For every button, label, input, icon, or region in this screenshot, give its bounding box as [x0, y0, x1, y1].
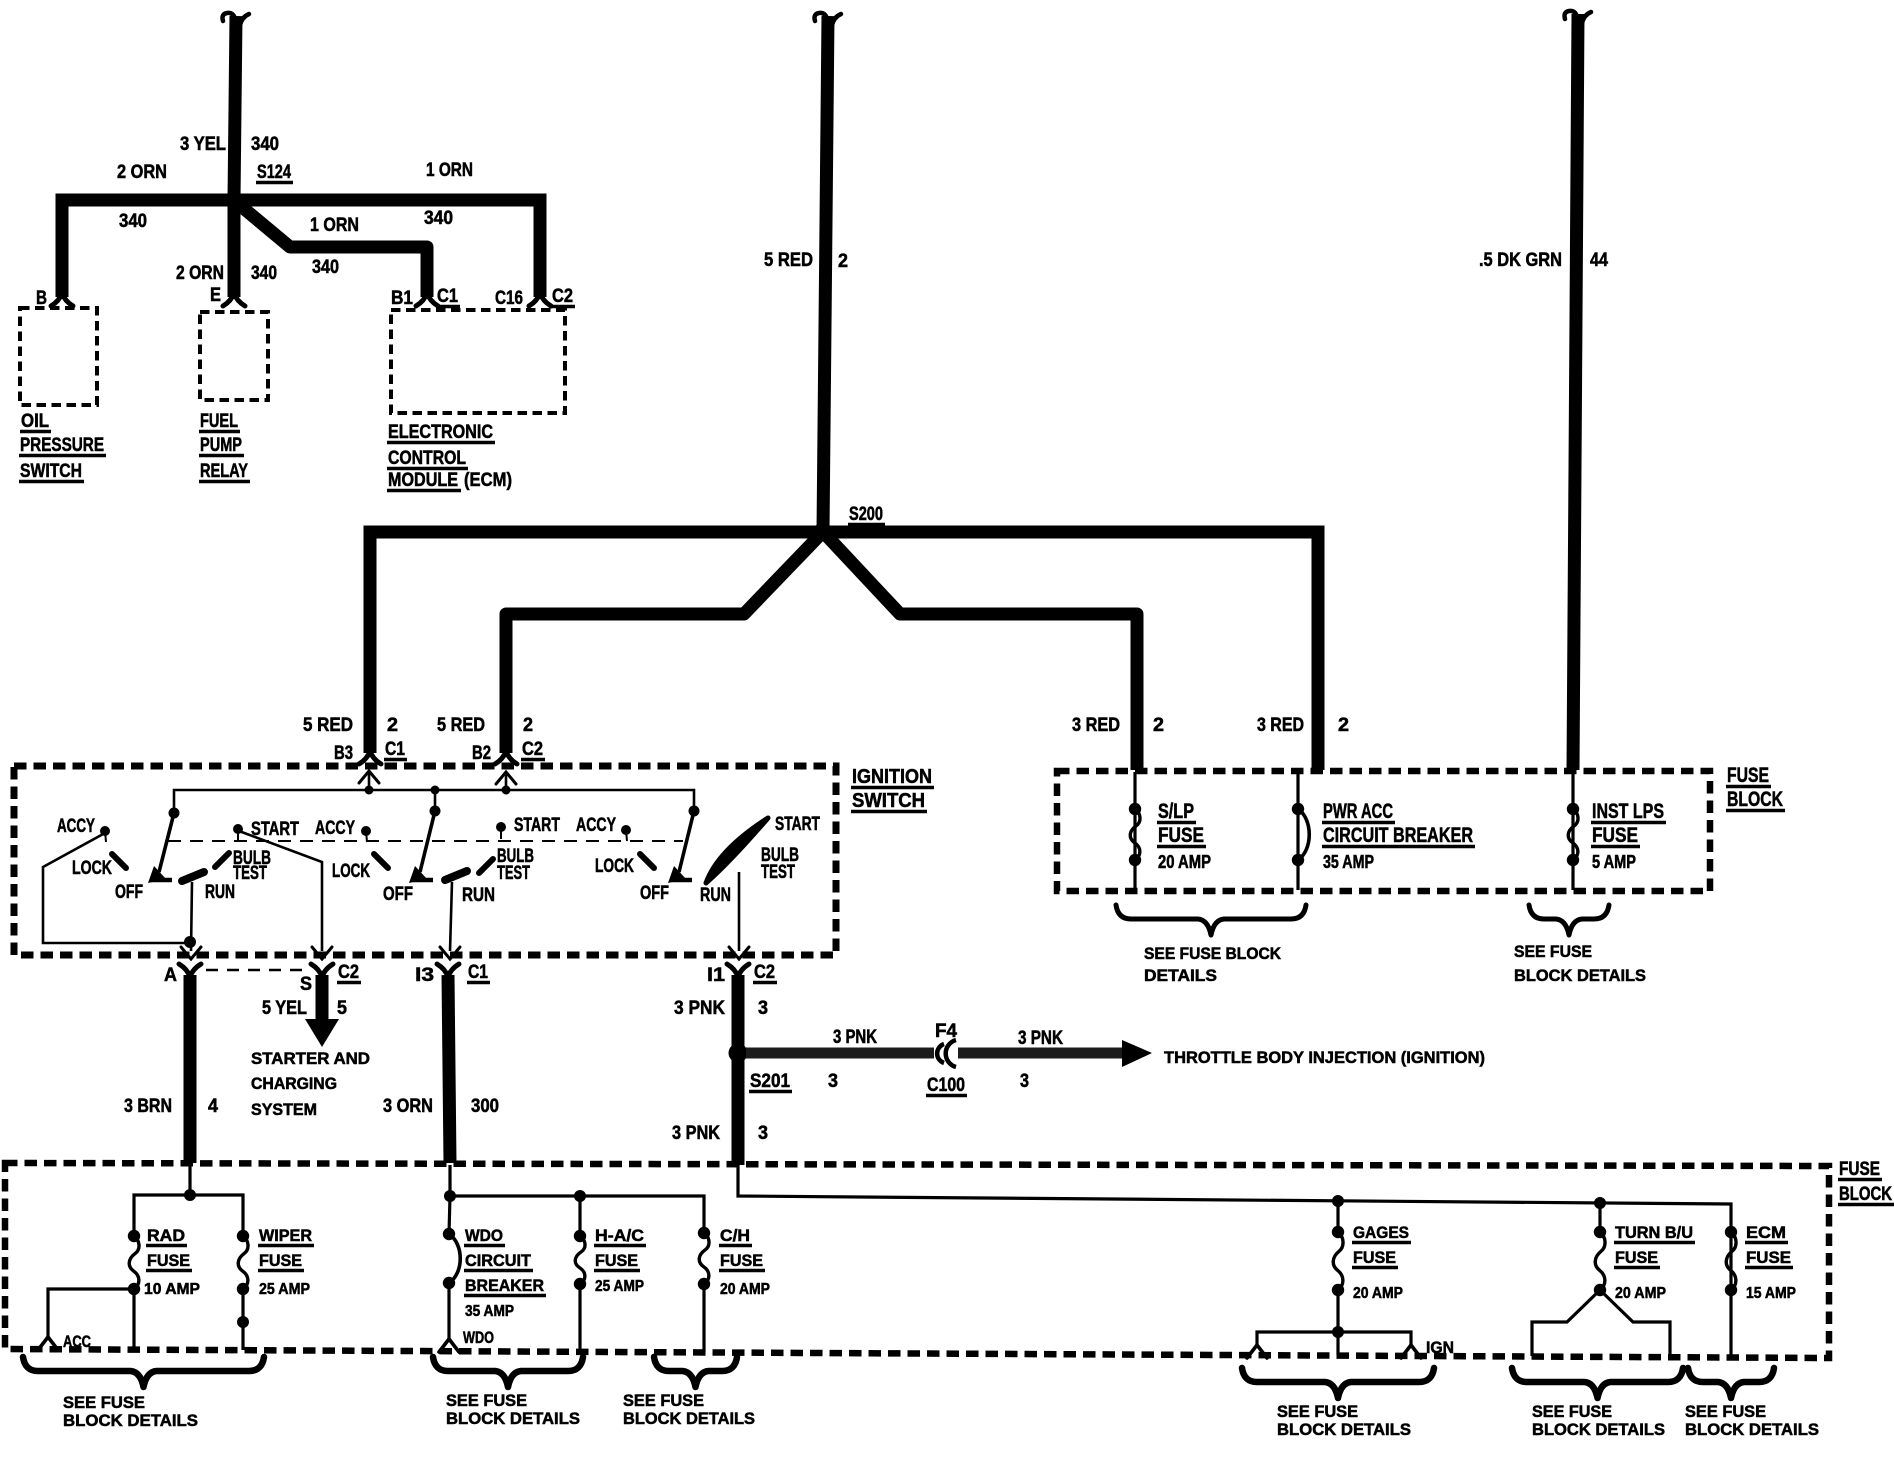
svg-text:BREAKER: BREAKER — [465, 1276, 544, 1295]
svg-text:20 AMP: 20 AMP — [1615, 1285, 1666, 1302]
terminal dot, S/LP fuse bottom — [1129, 854, 1141, 866]
svg-text:15 AMP: 15 AMP — [1746, 1285, 1796, 1302]
contact BULB TEST, section 2 — [479, 859, 493, 873]
svg-text:SWITCH: SWITCH — [852, 790, 925, 812]
splice junction S124 — [225, 191, 243, 209]
terminal dot, H-A/C fuse top — [574, 1230, 586, 1242]
svg-text:B: B — [36, 288, 47, 309]
wire RUN contact down to terminal A — [191, 882, 192, 951]
svg-text:FUSE: FUSE — [147, 1251, 190, 1270]
junction, B3 feed on rail — [365, 786, 374, 795]
svg-text:I3: I3 — [415, 965, 434, 986]
svg-text:CIRCUIT: CIRCUIT — [465, 1251, 532, 1270]
svg-text:DETAILS: DETAILS — [1144, 966, 1217, 985]
svg-text:OIL: OIL — [21, 411, 49, 432]
fuse element GAGES — [1333, 1232, 1343, 1290]
svg-text:5 YEL: 5 YEL — [262, 998, 307, 1019]
svg-text:PUMP: PUMP — [200, 435, 242, 456]
fuse block box (bottom) — [5, 1163, 1829, 1358]
svg-text:WDO: WDO — [463, 1328, 494, 1347]
terminal dot, WDO breaker top — [443, 1228, 455, 1240]
svg-text:ACC: ACC — [63, 1332, 91, 1351]
connector fork, ignition switch terminal I1 connector C2 — [727, 964, 749, 977]
wire 3 PNK 3 S201 to connector C100 — [746, 1048, 934, 1059]
arrowhead down at terminal A — [181, 947, 201, 959]
svg-text:20 AMP: 20 AMP — [1158, 852, 1211, 872]
svg-text:MODULE: MODULE — [388, 470, 458, 491]
junction, H-A/C feed — [574, 1190, 586, 1202]
TURN B/U output wires right — [1600, 1290, 1670, 1356]
contact ACCY, section 3 — [621, 825, 631, 835]
PWR ACC circuit breaker lead — [1296, 772, 1299, 890]
svg-text:FUSE: FUSE — [259, 1251, 302, 1270]
ignition switch movable contact arm pole 2 — [409, 811, 435, 883]
terminal dot, RAD fuse top — [128, 1230, 140, 1242]
svg-text:C100: C100 — [927, 1075, 965, 1096]
label MODULE (ECM) — [387, 470, 512, 491]
junction, B2 feed on rail — [502, 786, 511, 795]
terminal dot, TURN B/U fuse top — [1594, 1226, 1606, 1238]
fuse element ECM — [1726, 1232, 1736, 1290]
svg-text:3: 3 — [828, 1071, 838, 1092]
svg-text:START: START — [775, 814, 820, 835]
svg-text:ECM: ECM — [1746, 1223, 1786, 1242]
svg-text:C1: C1 — [437, 286, 458, 307]
arrowhead to starter and charging system — [305, 1019, 339, 1047]
svg-text:RUN: RUN — [700, 885, 731, 906]
svg-text:5 RED: 5 RED — [303, 715, 353, 736]
svg-text:IGNITION: IGNITION — [852, 766, 932, 788]
contact RUN, section 2 — [445, 871, 467, 880]
svg-text:BLOCK DETAILS: BLOCK DETAILS — [63, 1411, 198, 1430]
TURN B/U fuse lead — [1598, 1203, 1601, 1232]
terminal dot, INST LPS fuse top — [1567, 803, 1579, 815]
svg-text:3 PNK: 3 PNK — [1018, 1028, 1063, 1049]
feed wire to RAD and WIPER fuses — [134, 1195, 243, 1236]
terminal dot, C/H fuse top — [698, 1227, 710, 1239]
fuse block box (upper right) — [1057, 771, 1710, 891]
svg-text:BLOCK DETAILS: BLOCK DETAILS — [1514, 966, 1646, 985]
svg-text:3 YEL: 3 YEL — [180, 134, 226, 155]
fuse element C/H — [699, 1233, 709, 1284]
in-line connector C100 cavity F4 — [937, 1040, 956, 1067]
junction, GAGES feed — [1332, 1195, 1344, 1207]
connector fork, ECM pin C16 connector C2 — [529, 293, 551, 306]
svg-text:5: 5 — [337, 998, 347, 1019]
svg-text:I1: I1 — [707, 965, 725, 986]
svg-text:3: 3 — [1020, 1071, 1029, 1092]
svg-text:SEE FUSE: SEE FUSE — [1685, 1402, 1766, 1421]
ignition switch box — [14, 766, 836, 955]
label ELECTRONIC — [387, 422, 495, 443]
label FUSE — [594, 1251, 640, 1271]
wire 2 ORN 340, S124 to oil pressure switch — [62, 200, 234, 297]
connector pigtail, top of 3 YEL feed wire — [223, 13, 250, 25]
svg-text:2 ORN: 2 ORN — [176, 263, 224, 284]
connector label C1 — [467, 962, 490, 983]
svg-text:ELECTRONIC: ELECTRONIC — [388, 422, 493, 443]
circuit breaker element WDO — [449, 1234, 460, 1283]
connector fork, pin E of fuel pump relay — [223, 293, 245, 306]
wire 3 ORN into WDO node — [448, 1165, 451, 1195]
svg-text:B2: B2 — [472, 743, 491, 764]
svg-text:5 RED: 5 RED — [764, 250, 813, 271]
wire 5 RED 2, S200 to ignition switch B3 — [370, 532, 1318, 770]
terminal dot, GAGES fuse bottom — [1332, 1284, 1344, 1296]
wire GAGES fuse to IGN terminals — [1336, 1290, 1339, 1332]
brace, see fuse block details (TURN B/U) — [1512, 1368, 1683, 1398]
svg-text:IGN: IGN — [1426, 1338, 1454, 1357]
label PRESSURE — [19, 435, 106, 456]
feed wire 3 PNK to GAGES, TURN B/U and ECM fuses — [738, 1165, 1731, 1232]
ignition switch movable contact arm pole 1 — [148, 813, 174, 883]
svg-text:B3: B3 — [334, 743, 353, 764]
label SWITCH — [19, 461, 84, 482]
wire .5 DK GRN 44 to INST LPS fuse — [1573, 14, 1578, 770]
svg-text:ACCY: ACCY — [57, 816, 95, 837]
label FUSE — [1726, 764, 1771, 787]
connector fork, IGN terminal right — [1401, 1345, 1421, 1358]
svg-text:FUSE: FUSE — [1839, 1159, 1880, 1180]
svg-text:BLOCK: BLOCK — [1727, 788, 1783, 811]
svg-text:OFF: OFF — [115, 882, 143, 903]
label CIRCUIT — [464, 1251, 533, 1271]
internal feed wire from B3/B2 to switch poles — [174, 790, 694, 813]
INST LPS fuse lead — [1571, 772, 1574, 890]
contact RUN, section 1 — [182, 872, 204, 881]
svg-text:TEST: TEST — [761, 862, 795, 883]
connector label C2 — [551, 286, 575, 307]
connector label C2 — [521, 739, 545, 760]
label WIPER — [258, 1226, 314, 1246]
svg-text:SEE FUSE: SEE FUSE — [623, 1391, 704, 1410]
label OIL — [20, 411, 51, 432]
svg-text:START: START — [514, 815, 560, 836]
label H-A/C — [594, 1226, 646, 1246]
svg-text:FUSE: FUSE — [1592, 824, 1638, 847]
svg-text:FUSE: FUSE — [595, 1251, 638, 1270]
label S124 — [256, 162, 293, 183]
svg-text:SEE FUSE: SEE FUSE — [1514, 942, 1592, 961]
circuit breaker element PWR ACC — [1298, 809, 1309, 860]
label CIRCUIT BREAKER — [1322, 824, 1475, 847]
connector fork, WDO terminal — [439, 1339, 459, 1352]
label BREAKER — [464, 1276, 546, 1296]
svg-text:25 AMP: 25 AMP — [259, 1281, 310, 1298]
svg-text:OFF: OFF — [640, 883, 669, 904]
svg-text:S: S — [300, 974, 312, 995]
svg-text:3: 3 — [758, 998, 768, 1019]
svg-text:3 RED: 3 RED — [1257, 715, 1304, 736]
wire 3 BRN 4 terminal A to fuse block — [184, 975, 197, 1163]
svg-text:3 PNK: 3 PNK — [674, 998, 725, 1019]
svg-text:BLOCK DETAILS: BLOCK DETAILS — [1685, 1420, 1819, 1439]
TURN B/U output wires — [1532, 1290, 1600, 1356]
svg-text:35 AMP: 35 AMP — [465, 1303, 514, 1320]
svg-text:SEE FUSE: SEE FUSE — [1532, 1402, 1612, 1421]
svg-text:C1: C1 — [468, 962, 488, 983]
svg-text:44: 44 — [1590, 250, 1608, 271]
svg-text:3 PNK: 3 PNK — [672, 1123, 720, 1144]
svg-text:2: 2 — [387, 715, 398, 736]
svg-text:STARTER AND: STARTER AND — [251, 1049, 370, 1068]
svg-text:35 AMP: 35 AMP — [1323, 852, 1374, 872]
terminal dot, PWR ACC breaker bottom — [1292, 854, 1304, 866]
wire RAD fuse to ACC terminal — [48, 1289, 134, 1336]
stub wire to centre pole — [434, 790, 437, 811]
ECM fuse lead — [1729, 1232, 1732, 1357]
svg-text:SWITCH: SWITCH — [20, 461, 82, 482]
wire GAGES bus to bottom edge — [1336, 1332, 1339, 1355]
S/LP fuse lead — [1133, 772, 1136, 890]
wire RUN contact section 2 down to terminal I3 — [450, 882, 452, 951]
electronic control module box — [391, 310, 565, 413]
connector label C2 — [337, 962, 361, 983]
connector fork, pin B of oil pressure switch — [51, 293, 73, 306]
arrowhead up at B2 terminal — [496, 772, 516, 784]
brace, see fuse block details (INST LPS) — [1529, 905, 1609, 935]
contact ACCY, section 2 — [361, 826, 371, 836]
brace, see fuse block details (S/LP, PWR ACC) — [1116, 905, 1306, 935]
label FUSE — [1352, 1248, 1398, 1268]
svg-text:S200: S200 — [849, 504, 883, 525]
svg-text:5 RED: 5 RED — [437, 715, 485, 736]
svg-text:SEE FUSE: SEE FUSE — [63, 1393, 145, 1412]
svg-text:FUSE: FUSE — [1353, 1248, 1396, 1267]
svg-text:340: 340 — [251, 263, 277, 284]
svg-text:S201: S201 — [750, 1071, 790, 1092]
fuse element S/LP — [1130, 809, 1140, 860]
svg-text:BLOCK DETAILS: BLOCK DETAILS — [623, 1409, 755, 1428]
svg-text:C1: C1 — [385, 739, 405, 760]
svg-text:FUSE: FUSE — [1746, 1248, 1791, 1267]
svg-text:20 AMP: 20 AMP — [1353, 1285, 1403, 1302]
label SWITCH — [851, 790, 927, 812]
terminal dot, WDO breaker bottom — [443, 1277, 455, 1289]
svg-text:340: 340 — [312, 257, 339, 278]
WDO circuit breaker lead — [449, 1196, 450, 1234]
feed stem from B3 arrow — [368, 773, 371, 790]
svg-text:2: 2 — [523, 715, 533, 736]
svg-text:S/LP: S/LP — [1158, 800, 1194, 823]
label FUSE — [258, 1251, 304, 1271]
svg-text:PRESSURE: PRESSURE — [20, 435, 104, 456]
label BLOCK — [1838, 1184, 1894, 1205]
connector fork, ACC terminal — [38, 1337, 58, 1350]
label S201 — [749, 1071, 792, 1092]
label FUSE — [146, 1251, 192, 1271]
oil pressure switch box — [20, 308, 97, 405]
contact START, section 2 — [496, 822, 506, 832]
svg-text:SYSTEM: SYSTEM — [251, 1100, 317, 1119]
wire WDO breaker to WDO terminal — [447, 1283, 450, 1338]
fuse element H-A/C — [575, 1236, 585, 1284]
arrowhead to throttle body injection — [1122, 1040, 1152, 1067]
svg-text:H-A/C: H-A/C — [595, 1226, 644, 1245]
junction, TURN B/U feed — [1594, 1197, 1606, 1209]
svg-text:ACCY: ACCY — [576, 815, 616, 836]
connector fork, ignition switch terminal A — [179, 964, 201, 977]
wire ACCY contact to terminal A feed — [43, 833, 190, 943]
label ECM — [1745, 1223, 1788, 1243]
terminal dot, ECM fuse bottom — [1725, 1284, 1737, 1296]
fuse element WIPER — [238, 1236, 248, 1289]
terminal dot, H-A/C fuse bottom — [574, 1278, 586, 1290]
svg-text:340: 340 — [251, 134, 279, 155]
detent dashed line across switch positions — [168, 840, 683, 842]
brace, see fuse block details (RAD, WIPER) — [23, 1357, 264, 1387]
connector fork, IGN terminal left — [1247, 1345, 1267, 1358]
connector fork, ignition switch terminal S connector C2 — [311, 964, 333, 977]
connector fork, ECM pin B1 connector C1 — [416, 293, 438, 306]
svg-text:C/H: C/H — [720, 1226, 750, 1245]
connector label C2 — [753, 962, 777, 983]
IGN terminal bus — [1257, 1332, 1411, 1344]
svg-text:340: 340 — [119, 211, 147, 232]
splice junction S200 — [813, 523, 831, 541]
junction on IGN bus — [1332, 1326, 1344, 1338]
svg-text:LOCK: LOCK — [595, 856, 634, 877]
svg-text:PWR ACC: PWR ACC — [1323, 800, 1393, 823]
arrowhead up at B3 terminal — [359, 771, 379, 783]
wire 3 BRN into RAD/WIPER node — [188, 1165, 191, 1195]
label WDO — [464, 1226, 505, 1246]
wire 1 ORN 340, S124 to ECM C2 pin C16 — [234, 200, 540, 297]
label IGNITION — [851, 766, 934, 788]
feed wire WDO to H-A/C and C/H fuses — [450, 1196, 704, 1233]
svg-text:1 ORN: 1 ORN — [426, 160, 473, 181]
svg-text:20 AMP: 20 AMP — [720, 1281, 770, 1298]
label C/H — [719, 1226, 752, 1246]
svg-text:3 RED: 3 RED — [1072, 715, 1120, 736]
svg-text:5 AMP: 5 AMP — [1592, 852, 1636, 872]
svg-text:.5 DK GRN: .5 DK GRN — [1479, 250, 1562, 271]
svg-text:300: 300 — [471, 1096, 499, 1117]
terminal dot, C/H fuse bottom — [698, 1278, 710, 1290]
label CONTROL — [387, 448, 468, 469]
svg-text:10 AMP: 10 AMP — [144, 1281, 200, 1298]
svg-text:OFF: OFF — [383, 884, 413, 905]
svg-text:C2: C2 — [338, 962, 359, 983]
brace, see fuse block details (GAGES) — [1242, 1368, 1434, 1398]
svg-text:RUN: RUN — [205, 882, 235, 903]
svg-text:LOCK: LOCK — [332, 861, 370, 882]
wire 3 ORN 300 terminal I3 to WDO circuit breaker — [448, 975, 450, 1163]
svg-text:CIRCUIT BREAKER: CIRCUIT BREAKER — [1323, 824, 1473, 847]
terminal dot, S/LP fuse top — [1129, 803, 1141, 815]
wire START contact to terminal S/C2 — [239, 831, 322, 951]
wire 5 RED 2, vertical feed into S200 — [823, 16, 828, 532]
svg-text:INST LPS: INST LPS — [1592, 800, 1664, 823]
junction, RAD/WIPER feed — [184, 1189, 196, 1201]
svg-text:C2: C2 — [522, 739, 543, 760]
wire 3 PNK 3 terminal I1 to S201 — [732, 975, 745, 1053]
svg-text:BLOCK DETAILS: BLOCK DETAILS — [1277, 1420, 1411, 1439]
wire 1 ORN 340, S124 diagonal to ECM C1 pin B1 — [236, 202, 427, 297]
svg-text:WDO: WDO — [465, 1226, 503, 1245]
svg-text:RUN: RUN — [462, 885, 495, 906]
label C100 — [926, 1075, 967, 1096]
label FUSE — [1614, 1248, 1660, 1268]
svg-text:340: 340 — [424, 208, 453, 229]
fuse element INST LPS — [1568, 809, 1578, 860]
contact START, section 1 — [233, 824, 243, 834]
feed stem from B2 arrow — [505, 774, 508, 790]
svg-text:WIPER: WIPER — [259, 1226, 312, 1245]
svg-text:ACCY: ACCY — [315, 818, 355, 839]
svg-text:3 PNK: 3 PNK — [833, 1027, 877, 1048]
junction on terminal A feed — [184, 936, 196, 948]
connector fork, ignition switch terminal I3 connector C1 — [437, 964, 459, 977]
terminal dot, ECM fuse top — [1725, 1226, 1737, 1238]
svg-text:3 ORN: 3 ORN — [383, 1096, 433, 1117]
contact LOCK, section 2 — [374, 854, 388, 868]
wire 5 RED 2, S200 diagonal branch to ignition switch B2 — [506, 535, 820, 753]
connector fork, ignition switch pin B2 connector C2 — [495, 751, 517, 764]
label FUSE — [1591, 824, 1640, 847]
wire H-A/C fuse to bottom edge — [578, 1284, 581, 1352]
wire 5 YEL 5 to starter and charging system — [316, 975, 329, 1021]
wire 3 PNK 3 connector C100 to throttle body injection — [958, 1048, 1124, 1059]
label FUEL — [199, 411, 240, 432]
label FUSE — [719, 1251, 765, 1271]
svg-text:FUSE: FUSE — [1158, 824, 1204, 847]
wire C/H fuse to bottom edge — [702, 1284, 705, 1352]
fuse element TURN B/U — [1595, 1232, 1605, 1290]
arrowhead down at terminal I3/C1 — [440, 947, 460, 959]
terminal dot, GAGES fuse top — [1332, 1226, 1344, 1238]
connector pigtail, top of .5 DK GRN wire — [1565, 11, 1592, 23]
svg-text:TEST: TEST — [233, 863, 267, 884]
label PUMP — [199, 435, 244, 456]
svg-text:(ECM): (ECM) — [464, 470, 512, 491]
svg-text:SEE FUSE: SEE FUSE — [446, 1391, 527, 1410]
connector label C1 — [436, 286, 460, 307]
svg-text:3 BRN: 3 BRN — [124, 1096, 172, 1117]
wire 3 PNK 3 S201 down to fuse block — [732, 1053, 745, 1165]
label INST LPS — [1591, 800, 1666, 823]
start/bulb-test wiper arc, section 3 — [706, 818, 768, 883]
junction dot on WIPER lead — [237, 1316, 249, 1328]
terminal dot, WIPER fuse bottom — [237, 1283, 249, 1295]
svg-text:2: 2 — [1338, 715, 1349, 736]
svg-text:CONTROL: CONTROL — [388, 448, 466, 469]
svg-text:A: A — [164, 965, 177, 986]
junction, centre pole stub on rail — [431, 786, 440, 795]
ignition switch movable contact arm pole 3 — [668, 811, 694, 883]
svg-text:TEST: TEST — [497, 863, 530, 884]
brace, see fuse block details (WDO) — [433, 1357, 583, 1387]
label PWR ACC — [1322, 800, 1395, 823]
label GAGES — [1352, 1223, 1411, 1243]
GAGES fuse lead — [1336, 1201, 1339, 1232]
svg-text:BLOCK: BLOCK — [1839, 1184, 1892, 1205]
svg-text:SEE FUSE: SEE FUSE — [1277, 1402, 1358, 1421]
contact LOCK, section 1 — [112, 854, 126, 868]
label FUSE — [1157, 824, 1206, 847]
svg-text:F4: F4 — [935, 1021, 957, 1042]
terminal dot, TURN B/U fuse bottom — [1594, 1284, 1606, 1296]
svg-text:4: 4 — [208, 1096, 218, 1117]
svg-text:E: E — [210, 285, 221, 306]
fuel pump relay box — [200, 312, 268, 400]
svg-text:C2: C2 — [754, 962, 775, 983]
terminal dot, RAD fuse bottom — [128, 1283, 140, 1295]
connector pigtail, top of 5 RED feed wire — [815, 13, 842, 25]
svg-text:FUSE: FUSE — [720, 1251, 763, 1270]
svg-text:FUEL: FUEL — [200, 411, 238, 432]
contact ACCY, section 1 — [100, 826, 110, 836]
